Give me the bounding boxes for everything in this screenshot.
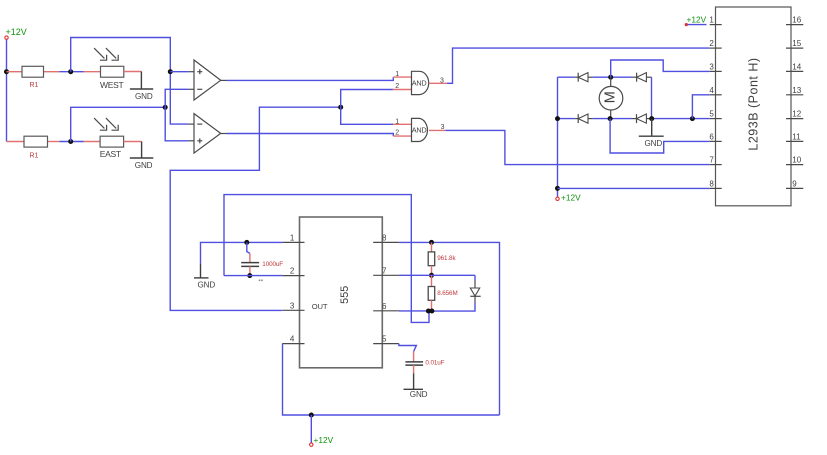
pin 12 (L293B) [786,110,803,119]
svg-text:1: 1 [395,71,399,78]
wire motor top to pin3 [611,60,710,77]
junction riser at op-amp1 + input [168,69,173,74]
op-amp U1 (top comparator) [189,60,227,100]
wire EAST node segment [60,141,84,143]
svg-text:11: 11 [792,133,801,142]
junction pin4/pin5 tie [690,116,695,121]
pin 11 (L293B) [786,133,803,142]
svg-text:1: 1 [290,233,295,242]
svg-text:6: 6 [709,133,714,142]
svg-text:GND: GND [198,281,216,290]
svg-text:2: 2 [709,39,714,48]
pin 1 (L293B) [709,16,721,25]
svg-text:3: 3 [440,77,444,84]
node +12V at pin1 [685,14,707,26]
junction bridge bottom-right / GND [649,116,654,121]
capacitor C1 1000uF [241,242,283,275]
junction cap C1 bottom [247,273,252,278]
svg-text:AND: AND [412,126,427,135]
svg-text:5: 5 [382,335,387,344]
wire U2 output to AND2 pin2 [227,134,394,137]
resistor R2 961.8k [428,242,456,275]
diode D2 (top-right) [632,73,652,82]
svg-text:3: 3 [441,124,445,131]
svg-text:GND: GND [410,390,428,399]
svg-text:961.8k: 961.8k [437,255,456,262]
LDR EAST [94,118,124,159]
wire to AND2 pin1 [341,107,393,124]
svg-text:+12V: +12V [687,14,707,24]
diode D4 (bottom-right) [632,114,650,123]
junction motor top / pin3 riser [608,75,613,80]
diode D1 (top-left) [575,73,593,82]
pin 8 (555) [373,233,399,242]
pin 7 (555) [373,266,399,275]
svg-text:+12V: +12V [314,435,334,445]
junction EAST node [68,139,73,144]
node +12V right [556,193,581,203]
svg-text:GND: GND [135,92,153,101]
junction pin6 (double) [426,309,435,314]
wire op-amp2 + input [165,107,189,141]
wire 555 pin8 +12V net [399,242,500,415]
svg-text:2: 2 [290,267,295,276]
motor M1 [599,77,623,118]
diode D3 (bottom-left) [575,114,593,123]
ground GND (WEST) [124,72,153,102]
pin 2 (L293B) [709,39,721,48]
pin 4 (555) [282,335,304,344]
svg-text:GND: GND [645,139,663,148]
and-gate AND2 [393,118,445,141]
wire op-amp1 - input [165,89,189,107]
wire op-amp1 + input [170,71,189,73]
svg-text:3: 3 [709,63,714,72]
wire left +12V rail [6,40,8,142]
pin 6 (555) [373,302,399,311]
junction EAST riser T [163,105,168,110]
node +12V bottom [310,415,334,446]
pin 5 (L293B) [709,110,721,119]
pin 15 (L293B) [786,39,803,48]
svg-text:M: M [603,91,619,103]
resistor R1 (bottom) [24,136,48,160]
wire 555 pin2 to pin6 loop [224,195,429,323]
ground GND (bridge) [639,119,664,148]
wire lead to EAST LDR [84,141,101,143]
pin 8 (L293B) [709,180,721,189]
wire motor bottom to pin6 [610,119,710,153]
wire 555 OUT net riser to AND junction [170,107,341,310]
capacitor C2 0.01uF [405,359,444,373]
wire AND2 output to L293B pin7 [445,130,709,164]
pin 16 (L293B) [786,16,803,25]
pin 3 (L293B) [709,63,721,72]
wire 555 pin5 to C2 [399,344,417,362]
resistor R1 (top) [22,66,44,89]
svg-text:L293B (Pont H): L293B (Pont H) [747,57,761,150]
junction pin8/R2 [429,240,434,245]
wire 555 pin2 segment [224,275,282,277]
wire pin7 row [399,274,475,276]
svg-text:14: 14 [792,63,801,72]
ground GND (555 pin1) [194,264,215,290]
junction pin7/R3 [429,273,434,278]
svg-text:10: 10 [792,156,801,165]
svg-text:R1: R1 [30,153,39,160]
junction rail/R1 top [4,69,9,74]
op-amp U2 (bottom comparator) [189,114,227,154]
junction cap C1 top [244,240,249,245]
svg-text:3: 3 [290,301,295,310]
ground GND (EAST) [124,142,154,170]
svg-text:7: 7 [709,156,714,165]
IC U3 L293B (Pont H) [716,7,792,206]
wire 555 pin4 to +12V rail [283,344,500,415]
pin 2 (555) [282,267,304,276]
svg-text:0.01uF: 0.01uF [425,359,444,366]
svg-text:2: 2 [395,83,399,90]
wire AND1 output to L293B pin2 [447,48,710,83]
pin 6 (L293B) [709,133,721,142]
svg-text:+12V: +12V [6,27,27,37]
wire 555 pin1 net [201,242,283,264]
wire bridge bottom rail segments [558,118,710,120]
svg-text:1: 1 [395,118,399,125]
wire U1 output to AND1 pin1 [227,77,394,80]
junction AND input T [338,105,343,110]
svg-text:EAST: EAST [100,149,121,159]
wire bridge right rail [651,77,653,118]
junction +12V right tap [555,186,560,191]
svg-text:OUT: OUT [312,302,328,311]
svg-text:16: 16 [792,16,801,25]
wire to AND1 pin2 [341,90,393,108]
wire pin4 to bottom rail [692,95,709,119]
ground GND (C2) [404,373,428,399]
junction motor bottom [608,116,613,121]
svg-text:7: 7 [382,266,387,275]
svg-text:WEST: WEST [100,80,123,90]
svg-text:4: 4 [290,335,295,344]
svg-text:6: 6 [382,302,387,311]
pin 4 (L293B) [709,86,721,95]
pin 3 (555) [282,301,304,310]
junction WEST node [68,69,73,74]
wire WEST node riser to comparators [71,38,189,125]
junction bridge bottom-left [555,116,560,121]
junction +12V bottom tap [309,413,314,418]
wire WEST node segment [60,71,84,73]
artifact marks below C1 [259,279,263,281]
svg-text:8: 8 [382,233,387,242]
svg-text:GND: GND [135,161,153,170]
wire bridge top rail segments [558,76,633,78]
and-gate AND1 [393,71,447,94]
svg-text:5: 5 [709,110,714,119]
IC U2 555 timer [300,217,383,368]
wire pin6 row [399,310,429,312]
pin 7 (L293B) [709,156,721,165]
svg-text:15: 15 [792,39,801,48]
wire 555 OUT lead [281,309,284,311]
svg-text:12: 12 [792,110,801,119]
pin 1 (555) [282,233,304,242]
svg-text:1000uF: 1000uF [262,261,283,268]
wire R1 bottom leads [7,141,60,143]
svg-text:8: 8 [709,180,714,189]
pin 5 (555) [373,335,399,344]
svg-text:8.656M: 8.656M [437,290,457,297]
pin 9 (L293B) [786,180,803,189]
svg-text:2: 2 [395,129,399,136]
wire EAST node riser [71,107,166,141]
pin 14 (L293B) [786,63,803,72]
wire lead to WEST LDR [84,71,101,73]
svg-text:555: 555 [339,286,351,304]
resistor R3 8.656M [428,275,457,311]
wire bridge left rail [557,77,559,197]
svg-text:+12V: +12V [561,193,581,203]
wire R1 top leads [7,71,60,73]
diode D5 (across R3) [433,275,481,311]
pin 10 (L293B) [786,156,803,165]
LDR WEST [94,48,124,90]
svg-text:4: 4 [709,86,714,95]
wire +12V to pin8 [558,187,710,189]
svg-text:AND: AND [412,79,427,88]
svg-text:R1: R1 [30,82,39,89]
svg-text:1: 1 [709,16,714,25]
node +12V top-left [5,27,27,39]
svg-text:9: 9 [792,180,797,189]
pin 13 (L293B) [786,86,803,95]
svg-text:13: 13 [792,86,801,95]
